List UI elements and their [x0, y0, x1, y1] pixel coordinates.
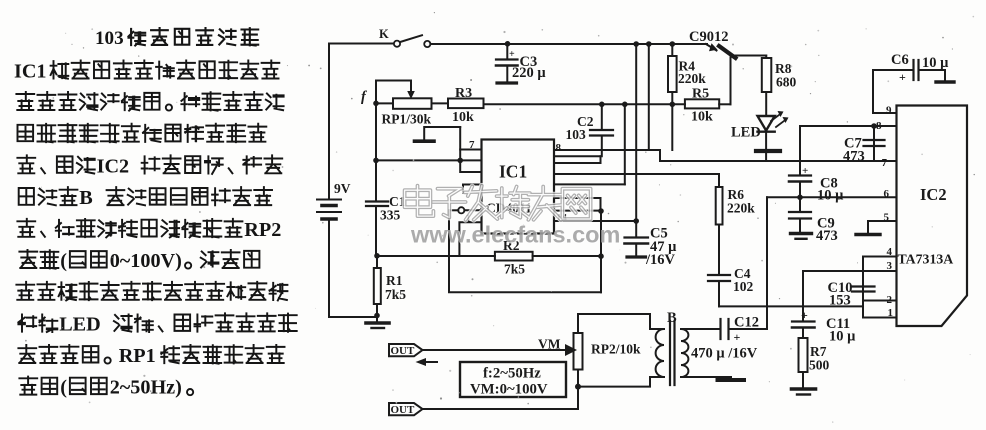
svg-text:+: + — [734, 330, 741, 344]
wire column left of R4 — [646, 41, 652, 150]
node C1 R2 junction — [374, 253, 380, 259]
resistor R2 7k5 — [377, 238, 601, 277]
capacitor C8 10u — [789, 126, 844, 204]
svg-text:473: 473 — [816, 228, 838, 244]
ground IC1 pin7 — [415, 127, 461, 141]
svg-text:+: + — [801, 308, 808, 322]
wire R6 row — [554, 174, 719, 187]
svg-text:4: 4 — [887, 246, 893, 258]
svg-text:8: 8 — [556, 142, 562, 154]
svg-text:(: ( — [60, 377, 67, 399]
svg-text:7k5: 7k5 — [385, 287, 406, 302]
svg-text:f:2~50Hz: f:2~50Hz — [483, 366, 541, 382]
svg-text:IC1: IC1 — [14, 61, 47, 83]
potentiometer RP1/30k — [376, 98, 448, 126]
wire IC1 input row — [376, 158, 482, 164]
paragraph text — [14, 61, 297, 399]
svg-text:220k: 220k — [727, 201, 755, 216]
svg-text:220 μ: 220 μ — [512, 65, 546, 81]
wire IC2 pin 8 row — [800, 120, 897, 132]
svg-text:103: 103 — [566, 127, 587, 142]
svg-text:2~50Hz): 2~50Hz) — [110, 377, 182, 399]
capacitor C11 10u — [792, 271, 856, 345]
svg-text:B: B — [79, 187, 92, 209]
capacitor C3 220u — [496, 44, 546, 83]
wire RP1 wiper loop — [376, 81, 415, 104]
wire RP2 top to transformer — [578, 314, 650, 333]
svg-text:R1: R1 — [386, 273, 403, 288]
wire IC1 out stub — [554, 208, 604, 214]
svg-text:6: 6 — [884, 188, 890, 200]
svg-text:7k5: 7k5 — [504, 262, 525, 277]
svg-text:R5: R5 — [692, 87, 709, 102]
svg-text:RP1: RP1 — [119, 345, 156, 367]
LED — [731, 92, 789, 161]
wire pin4 pin1 bus — [863, 246, 897, 319]
capacitor C2 103 — [554, 104, 613, 156]
svg-text:10 μ: 10 μ — [922, 55, 949, 71]
resistor R8 680 — [762, 56, 797, 93]
switch K — [379, 27, 430, 47]
watermark elecfans — [405, 186, 622, 249]
svg-text:C9012: C9012 — [689, 29, 728, 45]
resistor R6 220k — [716, 187, 756, 225]
resistor R1 7k5 — [374, 256, 406, 317]
svg-text:IC2: IC2 — [920, 185, 947, 204]
wire f column — [375, 103, 377, 201]
svg-text:+: + — [899, 70, 906, 84]
potentiometer RP2/10k — [538, 333, 641, 370]
wire out column — [598, 211, 604, 293]
node junction C3 rail — [505, 41, 511, 47]
resistor R4 220k — [668, 41, 706, 150]
wire battery top to switch — [329, 44, 394, 200]
svg-text:RP1/30k: RP1/30k — [382, 112, 432, 127]
svg-text:7: 7 — [882, 157, 888, 169]
wire IC1 pin 14 — [554, 212, 639, 224]
svg-text:3: 3 — [887, 260, 893, 272]
svg-text:RP2/10k: RP2/10k — [591, 342, 641, 357]
svg-text:IC1: IC1 — [499, 162, 527, 182]
svg-text:103: 103 — [95, 28, 124, 49]
svg-text:10 μ: 10 μ — [817, 188, 844, 204]
svg-text:5: 5 — [884, 212, 890, 224]
capacitor C4 102 — [708, 225, 754, 307]
svg-text:C6: C6 — [891, 52, 909, 68]
arrow left small — [416, 358, 438, 366]
svg-text:+: + — [509, 49, 515, 60]
wire IC2 pin 5 to ground — [856, 212, 897, 235]
svg-text:473: 473 — [843, 149, 865, 165]
node C8 C9 junction — [797, 195, 803, 201]
title text 103 dian zhen jiu zhi liao yi — [95, 28, 258, 49]
resistor R7 500 — [799, 328, 830, 373]
resistor R3 10k — [448, 86, 484, 125]
svg-text:VM:0~100V: VM:0~100V — [470, 382, 548, 398]
label box f 2-50Hz VM 0-100V — [460, 362, 566, 398]
capacitor C10 153 — [828, 280, 875, 309]
wire LED row to IC2 pin 7 — [660, 157, 897, 169]
wire IC1 pin 7 — [460, 127, 481, 160]
svg-text:LED: LED — [59, 314, 101, 336]
svg-text:LED: LED — [731, 125, 761, 141]
wire +9V top rail — [430, 43, 707, 45]
wire R3 to R5 — [484, 103, 686, 105]
wire IC1 pin1 loop — [449, 210, 601, 292]
wire IC1 stub row4 — [459, 222, 481, 256]
wire OUT1 with arrow to RP2 wiper — [389, 344, 577, 357]
wire battery bottom rail — [329, 219, 377, 317]
svg-text:10 μ: 10 μ — [829, 329, 856, 345]
svg-text:153: 153 — [829, 293, 851, 309]
ground below R7 — [792, 372, 816, 395]
capacitor C12 470u/16V — [691, 315, 767, 362]
wire C5 column — [633, 41, 639, 237]
svg-text:RP2: RP2 — [244, 219, 281, 241]
svg-text:500: 500 — [809, 358, 830, 373]
svg-text:TA7313A: TA7313A — [898, 252, 954, 267]
svg-text:www.elecfans.com: www.elecfans.com — [410, 222, 620, 248]
svg-text:R3: R3 — [455, 86, 472, 101]
node f column IC1 input — [373, 158, 379, 164]
wire column to IC1 stub — [554, 102, 628, 185]
wire IC1 stub row3 — [463, 185, 482, 194]
svg-text:/16V: /16V — [645, 252, 676, 268]
svg-text:9: 9 — [886, 105, 892, 117]
wire IC1 stub y163 — [554, 156, 601, 163]
node RP2 bottom — [575, 370, 581, 390]
svg-text:680: 680 — [776, 75, 797, 90]
wire IC1 stub row2 — [460, 160, 481, 172]
svg-text:OUT: OUT — [391, 345, 416, 357]
svg-text:102: 102 — [733, 279, 754, 294]
svg-text:470 μ /16V: 470 μ /16V — [691, 346, 758, 362]
svg-text:IC2: IC2 — [97, 155, 130, 177]
svg-text:220k: 220k — [678, 71, 706, 86]
svg-text:(: ( — [60, 250, 67, 272]
svg-text:1: 1 — [888, 307, 894, 319]
transistor C9012 — [689, 29, 766, 104]
wire C12 riser column — [766, 197, 768, 328]
wire IC1 stub y198 — [554, 198, 601, 211]
wire IC2 pin 3 row — [803, 260, 897, 272]
capacitor C6 10u — [873, 52, 954, 117]
capacitor C7 473 — [843, 126, 885, 165]
svg-text:K: K — [379, 27, 389, 41]
svg-text:9V: 9V — [334, 181, 351, 196]
svg-text:10k: 10k — [452, 110, 474, 125]
svg-text:10k: 10k — [691, 110, 713, 125]
svg-text:2: 2 — [887, 294, 893, 306]
node C2 top — [599, 102, 605, 108]
resistor R5 10k — [685, 87, 719, 125]
svg-text:7: 7 — [469, 139, 475, 151]
svg-text:OUT: OUT — [391, 404, 416, 416]
svg-text:335: 335 — [380, 208, 401, 223]
battery 9V — [317, 181, 351, 219]
capacitor C5 47u/16V — [625, 226, 678, 269]
IC1 CD4011 box — [482, 140, 555, 234]
pin 1 bubble IC1 — [449, 207, 482, 224]
svg-text:0~100V): 0~100V) — [110, 250, 182, 272]
node f — [361, 89, 379, 106]
wire C4 to IC2 pin2 bus — [719, 305, 863, 307]
op-amp IC2 TA7313A — [897, 106, 968, 327]
capacitor C9 473 — [789, 197, 838, 244]
transformer B — [578, 310, 744, 387]
svg-text:f: f — [361, 89, 368, 105]
wire IC2 pin 2 stub — [863, 294, 897, 306]
wire OUT2 — [389, 387, 578, 416]
ground bottom left — [366, 313, 389, 328]
capacitor C1 335 — [366, 194, 406, 256]
svg-text:C12: C12 — [734, 315, 759, 331]
wire IC2 pin 6 row — [767, 188, 897, 200]
wire IC1 pin 8 row — [554, 142, 660, 161]
svg-text:8: 8 — [876, 120, 882, 132]
